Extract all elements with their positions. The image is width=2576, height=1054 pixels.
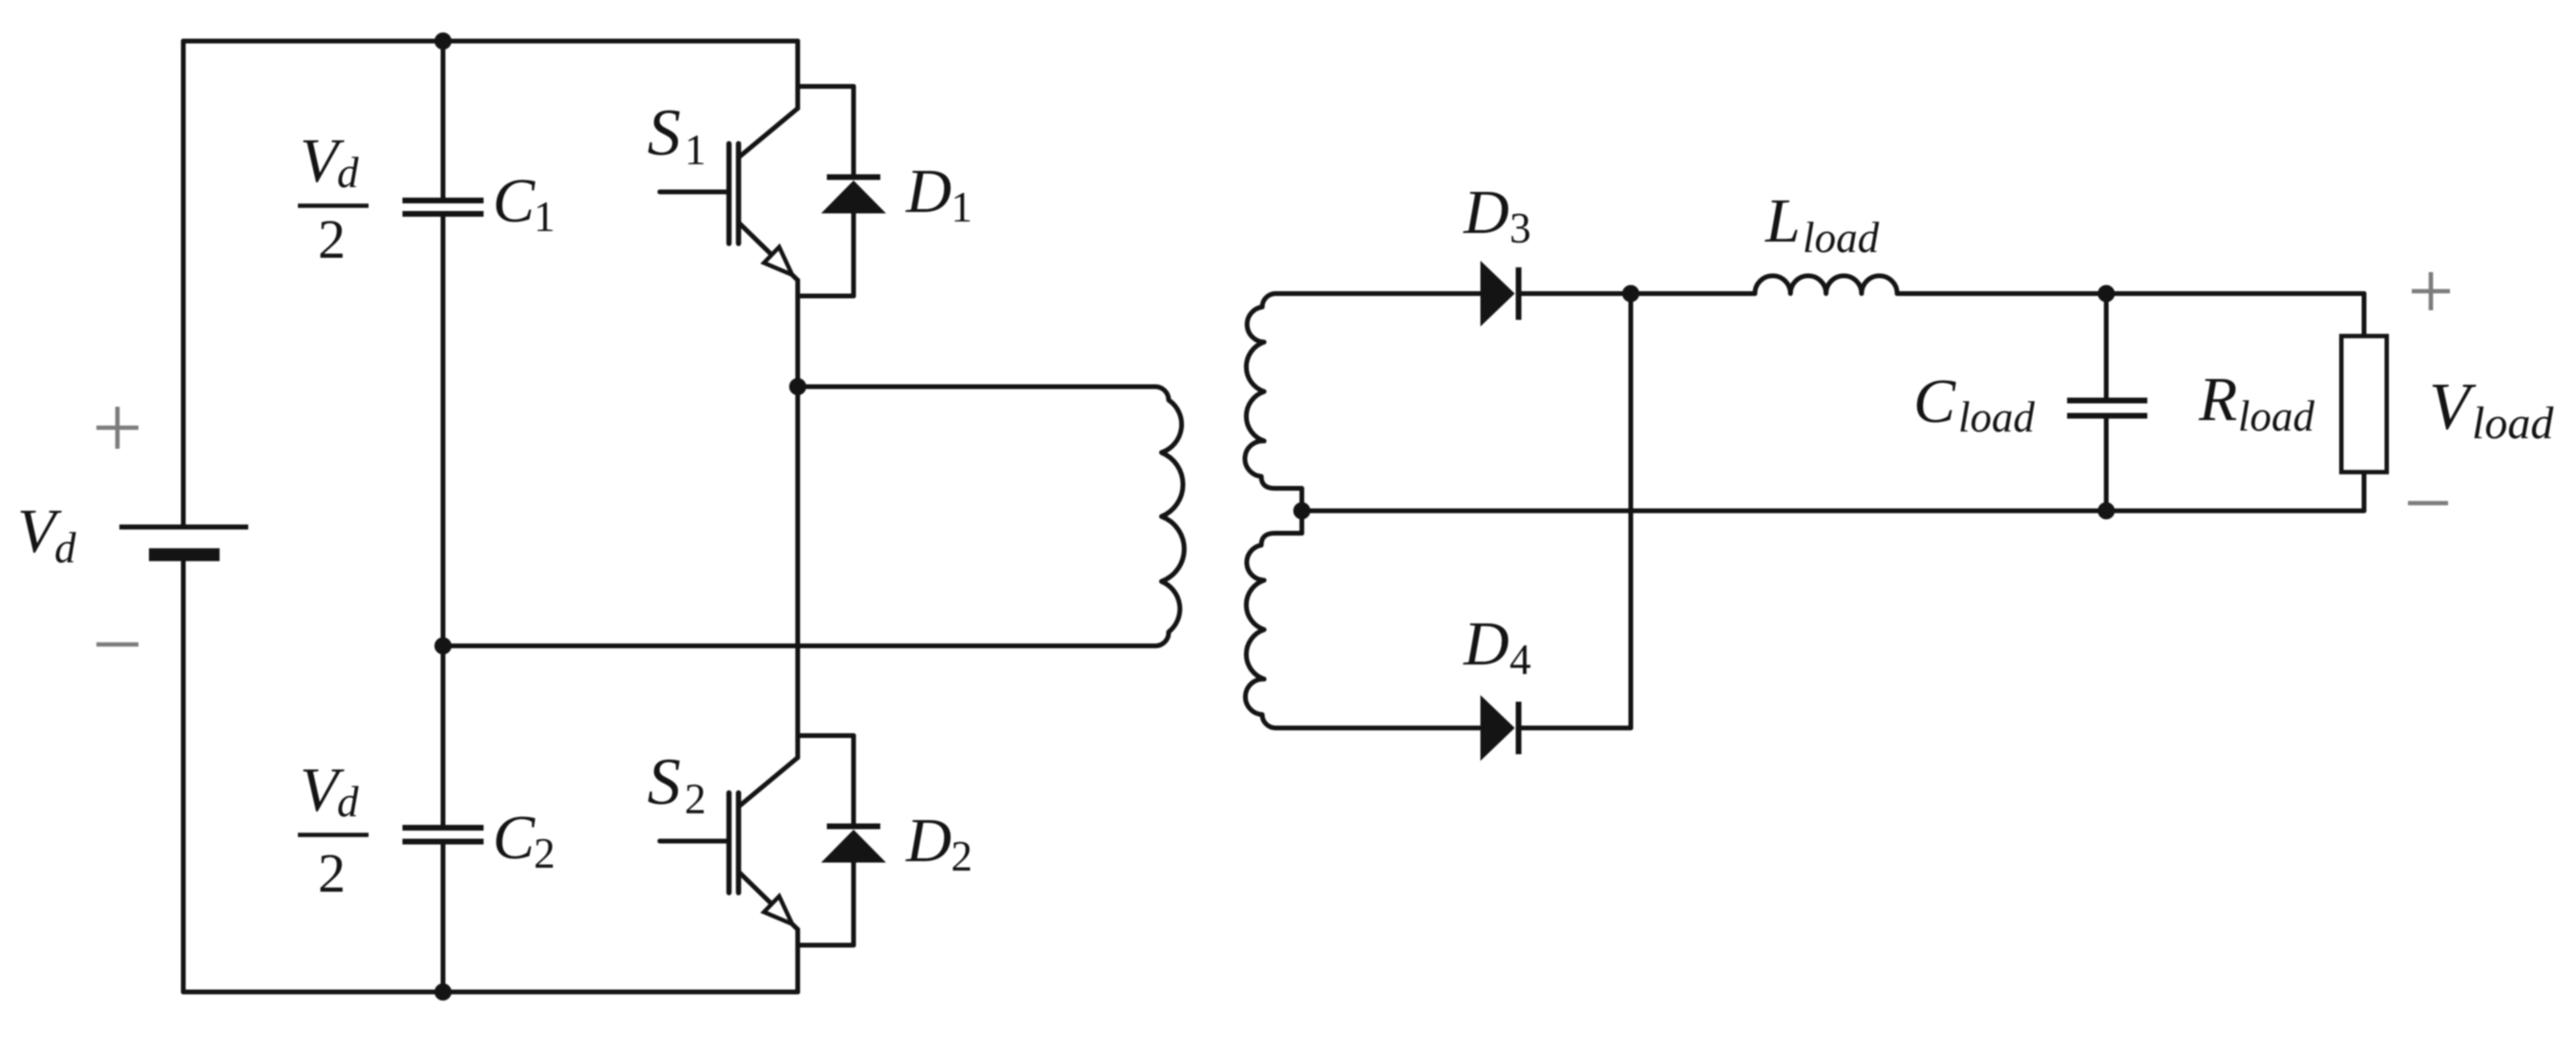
svg-text:D: D (905, 806, 952, 875)
wire D2 lower (852, 863, 856, 946)
svg-text:2: 2 (951, 833, 973, 880)
battery minus sign (96, 643, 138, 647)
diode D2 triangle (821, 830, 886, 863)
wire C_load lower (2104, 419, 2109, 512)
wire S2 emitter to bottom rail (795, 930, 800, 993)
wire D1 lower (852, 214, 856, 297)
transformer primary winding (1155, 387, 1184, 646)
transformer secondary upper winding (1245, 294, 1302, 534)
node dot center tap (1294, 502, 1311, 519)
transistor S1 body bar (736, 144, 742, 244)
wire D1 upper (852, 87, 856, 175)
transistor S2 gate lead (660, 839, 727, 844)
svg-text:2: 2 (534, 830, 556, 877)
svg-text:2: 2 (685, 775, 707, 823)
wire capacitor branch lower (441, 845, 446, 993)
transistor S1 collector slant (739, 109, 798, 158)
svg-text:L: L (1764, 186, 1801, 256)
transistor S2 gate bar (727, 793, 732, 894)
wire D2 top jog (798, 733, 855, 738)
wire left rail upper (181, 41, 186, 527)
diode D3 bar (1516, 267, 1522, 320)
V_load plus sign (2412, 272, 2450, 310)
wire secondary top to D3 (1276, 291, 1481, 296)
transistor S2 body bar (736, 793, 742, 894)
svg-text:2: 2 (318, 208, 346, 270)
svg-text:C: C (1913, 367, 1956, 436)
transistor S2 collector slant (739, 758, 798, 808)
node dot bottom (434, 983, 452, 1001)
svg-text:d: d (337, 149, 359, 197)
svg-text:C: C (493, 803, 536, 873)
svg-text:load: load (2472, 398, 2554, 449)
wire node to primary (798, 385, 1156, 390)
transistor S1 emitter slant (739, 222, 798, 281)
node dot C_load top (2098, 285, 2115, 303)
transformer secondary lower winding (1245, 534, 1301, 728)
svg-text:3: 3 (1510, 204, 1531, 252)
wire R_load bottom lead (2362, 473, 2367, 512)
wire secondary bottom to D4 (1276, 726, 1481, 730)
svg-text:S: S (647, 96, 681, 170)
wire D2 bottom jog (798, 943, 855, 948)
svg-text:R: R (2198, 365, 2237, 434)
wire switch branch top (795, 41, 800, 109)
wire R_load top lead (2362, 294, 2367, 337)
node dot D3 junction (1622, 285, 1639, 303)
svg-text:4: 4 (1510, 636, 1531, 684)
diode D4 triangle (1481, 695, 1515, 761)
svg-text:D: D (1463, 178, 1510, 247)
transistor S1 gate bar (727, 144, 732, 244)
svg-text:1: 1 (951, 183, 973, 231)
diode D1 triangle (821, 180, 886, 214)
wire C_load upper (2104, 294, 2109, 398)
svg-text:load: load (2238, 392, 2315, 440)
battery plus sign (96, 407, 138, 449)
svg-text:1: 1 (685, 126, 707, 174)
node dot capacitor midpoint (434, 638, 452, 655)
diode D2 bar (827, 824, 880, 830)
diode D4 bar (1516, 702, 1522, 754)
wire left rail lower (181, 561, 186, 992)
transistor S2 emitter arrow (764, 896, 792, 924)
wire middle rail (443, 643, 1155, 648)
node dot half-bridge midpoint (790, 378, 807, 395)
svg-text:D: D (1463, 609, 1510, 679)
wire bottom rail (183, 990, 798, 995)
wire top rail (183, 39, 798, 44)
diode D3 triangle (1481, 261, 1515, 327)
svg-text:V: V (2429, 370, 2477, 444)
battery Vd plates (119, 524, 248, 529)
capacitor C2 plates (403, 828, 484, 842)
svg-text:C: C (493, 166, 536, 236)
transistor S1 emitter arrow (764, 247, 792, 275)
capacitor C_load plates (2067, 401, 2147, 416)
wire D1 top jog (798, 84, 855, 89)
wire center tap rail (1302, 509, 2365, 514)
svg-text:D: D (905, 157, 952, 226)
diode D1 bar (827, 175, 880, 180)
svg-text:2: 2 (318, 842, 346, 904)
node dot C_load bottom (2098, 502, 2115, 519)
wire D4 to junction corner (1522, 726, 1632, 730)
svg-text:1: 1 (534, 193, 556, 241)
V_load minus sign (2408, 501, 2448, 506)
svg-text:load: load (1958, 393, 2036, 441)
wire S1 emitter to node (795, 281, 800, 388)
wire switch branch middle (795, 387, 800, 758)
wire junction vertical (1629, 294, 1634, 728)
capacitor C1 plates (403, 200, 484, 214)
wire D3 to junction (1522, 291, 1756, 296)
wire capacitor branch upper (441, 41, 446, 198)
inductor L_load (1755, 276, 1897, 294)
wire capacitor branch middle (441, 217, 446, 825)
svg-text:S: S (647, 746, 681, 819)
resistor R_load body (2341, 336, 2387, 473)
wire D1 bottom jog (798, 294, 855, 299)
svg-text:load: load (1803, 214, 1880, 262)
node dot top (434, 32, 452, 50)
transistor S1 gate lead (660, 190, 727, 195)
wire L_load to R_load top (1897, 291, 2364, 296)
wire D2 upper (852, 736, 856, 824)
transistor S2 emitter slant (739, 872, 798, 930)
svg-text:d: d (337, 778, 359, 826)
svg-text:d: d (54, 524, 76, 572)
